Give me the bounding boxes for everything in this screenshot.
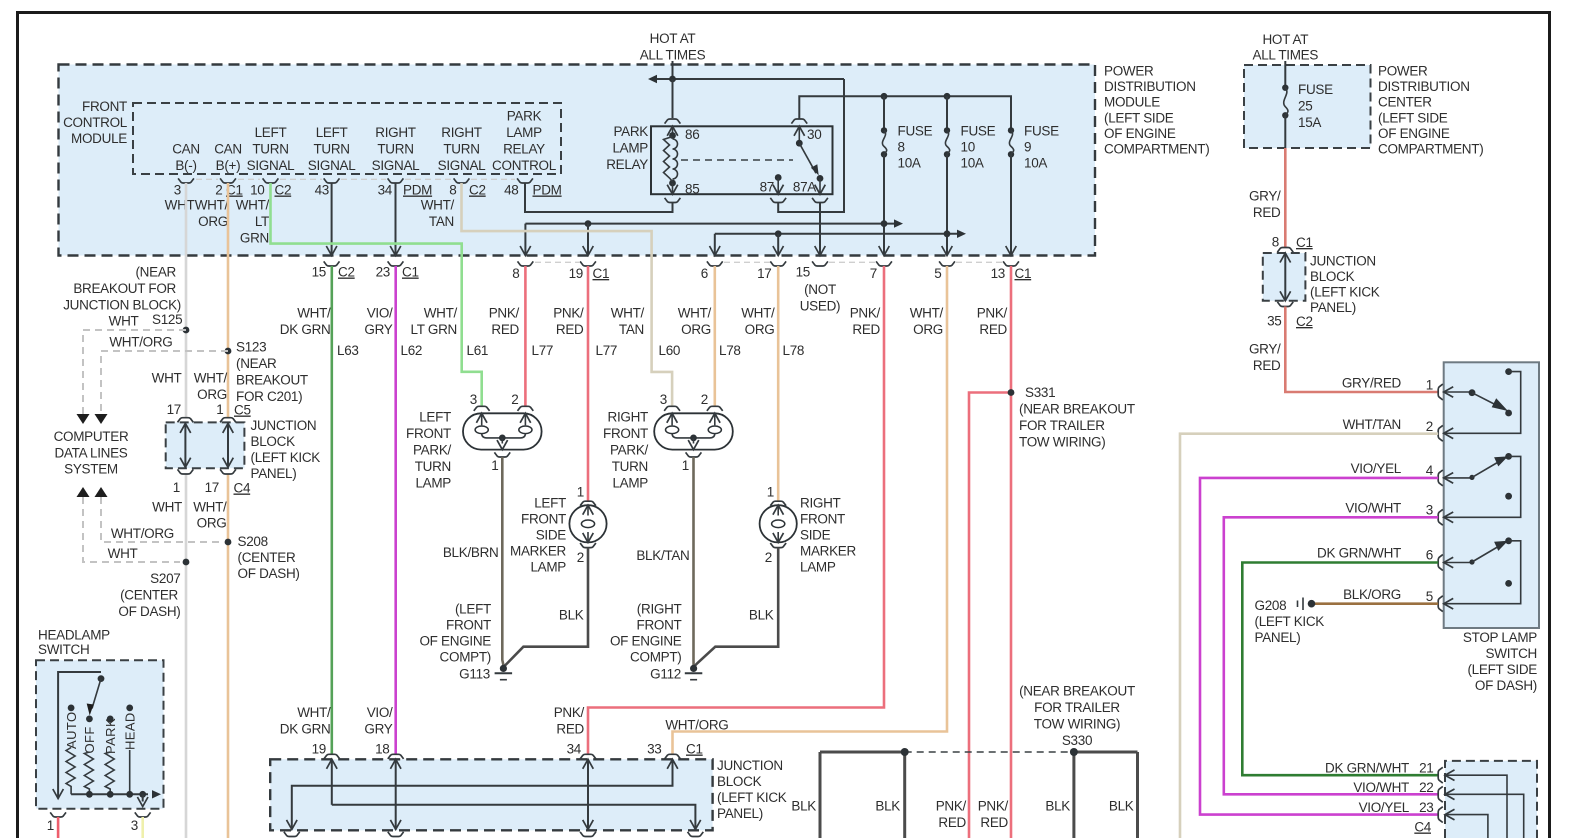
svg-text:WHT/: WHT/: [297, 705, 331, 720]
svg-text:VIO/WHT: VIO/WHT: [1353, 780, 1409, 795]
svg-text:87A: 87A: [793, 180, 816, 195]
junction block C4 pin 21: [1438, 767, 1443, 783]
headlamp switch contact AUTO: [68, 705, 75, 712]
svg-text:WHT: WHT: [152, 371, 182, 386]
svg-text:L63: L63: [337, 343, 359, 358]
relay pin 85 terminal: [669, 180, 676, 187]
svg-text:G113: G113: [459, 667, 490, 682]
svg-text:(NEAR: (NEAR: [135, 265, 176, 280]
svg-text:STOP LAMP: STOP LAMP: [1463, 630, 1537, 645]
svg-text:(NEAR BREAKOUT: (NEAR BREAKOUT: [1019, 684, 1135, 699]
svg-text:PARK: PARK: [613, 124, 648, 139]
svg-text:RIGHT: RIGHT: [375, 125, 416, 140]
headlamp switch pin 1 exit: [50, 812, 66, 817]
svg-text:1: 1: [173, 480, 180, 495]
svg-text:LT GRN: LT GRN: [411, 322, 457, 337]
svg-text:9: 9: [1024, 140, 1031, 155]
wire YEL from headlamp switch pin 3: [141, 817, 144, 838]
svg-text:RED: RED: [556, 322, 584, 337]
svg-text:LAMP: LAMP: [506, 125, 542, 140]
svg-text:6: 6: [1426, 548, 1433, 563]
svg-text:RED: RED: [980, 815, 1008, 830]
svg-text:3: 3: [174, 183, 181, 198]
svg-text:PNK/: PNK/: [553, 306, 584, 321]
svg-text:BLK/BRN: BLK/BRN: [443, 545, 499, 560]
svg-text:(LEFT KICK: (LEFT KICK: [1310, 285, 1380, 300]
svg-text:WHT/: WHT/: [236, 198, 270, 213]
svg-text:(CENTER: (CENTER: [238, 550, 296, 565]
svg-text:15A: 15A: [1298, 115, 1321, 130]
svg-text:RED: RED: [556, 722, 584, 737]
svg-text:C1: C1: [593, 266, 610, 281]
svg-text:MODULE: MODULE: [1104, 95, 1160, 110]
ground G208: [1308, 600, 1316, 608]
svg-text:ALL TIMES: ALL TIMES: [640, 48, 706, 63]
junction block internal wire pin 34: [587, 759, 589, 829]
svg-text:PNK/: PNK/: [936, 799, 967, 814]
svg-text:L77: L77: [532, 343, 554, 358]
wire GRY/RED fuse 25 to junction block: [1284, 148, 1287, 248]
svg-text:23: 23: [1419, 800, 1433, 815]
svg-text:VIO/YEL: VIO/YEL: [1351, 461, 1402, 476]
svg-text:WHT/: WHT/: [910, 306, 944, 321]
svg-text:1: 1: [682, 458, 689, 473]
svg-text:FUSE: FUSE: [1298, 82, 1333, 97]
svg-text:B(+): B(+): [216, 158, 241, 173]
svg-text:ALL TIMES: ALL TIMES: [1253, 48, 1319, 63]
svg-text:WHT/: WHT/: [678, 306, 712, 321]
wire WHT/ORG park feed from pin 17 to right side marker pin 1: [777, 266, 780, 501]
svg-text:BLK: BLK: [749, 608, 774, 623]
svg-text:BLK/TAN: BLK/TAN: [636, 548, 689, 563]
junction block right bottom exit 35 C2: [1277, 302, 1293, 307]
right front side marker lamp: [760, 505, 797, 542]
svg-text:C1: C1: [402, 265, 419, 280]
svg-text:PARK: PARK: [103, 718, 118, 754]
svg-text:WHT/: WHT/: [611, 306, 645, 321]
wire WHT/TAN to stop lamp switch pin 2: [1180, 434, 1438, 838]
wire GRY/RED junction block to stop lamp switch pin 1: [1285, 307, 1438, 393]
dashed line to splice S208: [101, 497, 222, 542]
svg-text:COMPARTMENT): COMPARTMENT): [1378, 142, 1483, 157]
svg-text:G208: G208: [1255, 598, 1287, 613]
svg-text:(LEFT SIDE: (LEFT SIDE: [1104, 110, 1174, 125]
left front side marker lamp: [569, 505, 606, 542]
dashed line to splice S207: [83, 497, 180, 562]
svg-text:BREAKOUT: BREAKOUT: [236, 373, 308, 388]
junction block pin 33 entry: [665, 754, 681, 759]
svg-text:FRONT: FRONT: [82, 99, 127, 114]
svg-text:2: 2: [511, 392, 518, 407]
FCM row1 connector bumps: [178, 178, 194, 183]
fuse 8 output drop to pin 7: [883, 154, 885, 255]
svg-text:BLK: BLK: [1045, 799, 1070, 814]
svg-text:15: 15: [312, 265, 326, 280]
svg-text:ORG: ORG: [197, 387, 227, 402]
wire relay pin 30 feed to fuses: [799, 96, 1011, 130]
splice S330 dashed link: [905, 751, 1074, 753]
junction block right pin 8 C1 entry: [1277, 248, 1293, 253]
svg-text:JUNCTION: JUNCTION: [251, 418, 317, 433]
svg-text:LAMP: LAMP: [415, 476, 451, 491]
svg-text:COMPARTMENT): COMPARTMENT): [1104, 142, 1209, 157]
svg-text:C2: C2: [338, 265, 355, 280]
svg-text:18: 18: [375, 742, 389, 757]
svg-text:(LEFT SIDE: (LEFT SIDE: [1378, 110, 1448, 125]
svg-text:GRY/: GRY/: [1249, 189, 1281, 204]
svg-text:TAN: TAN: [429, 214, 454, 229]
svg-text:LAMP: LAMP: [612, 476, 648, 491]
svg-text:2: 2: [1426, 419, 1433, 434]
svg-text:8: 8: [512, 266, 519, 281]
svg-text:1: 1: [216, 402, 223, 417]
front control module connector inner box: [133, 103, 561, 174]
wire PNK/RED from pin 13 C1 through splice S331: [1010, 266, 1013, 838]
svg-text:2: 2: [765, 550, 772, 565]
svg-text:(NEAR: (NEAR: [236, 356, 277, 371]
junction block bottom connector bumps: [284, 832, 300, 837]
svg-text:WHT/ORG: WHT/ORG: [109, 335, 172, 350]
FCM row2 connector dashed links: [535, 261, 580, 263]
svg-text:FUSE: FUSE: [961, 124, 996, 139]
ground G113: [500, 665, 507, 672]
svg-text:LAMP: LAMP: [530, 560, 566, 575]
svg-text:PNK/: PNK/: [978, 799, 1009, 814]
svg-text:DISTRIBUTION: DISTRIBUTION: [1378, 79, 1470, 94]
wire DK GRN/WHT stop lamp pin 6 to C4 pin 21: [1242, 563, 1438, 776]
svg-text:10A: 10A: [1024, 156, 1047, 171]
svg-text:PNK/: PNK/: [850, 306, 881, 321]
svg-text:34: 34: [567, 742, 582, 757]
svg-text:WHT/ORG: WHT/ORG: [665, 718, 728, 733]
svg-text:WHT/: WHT/: [421, 198, 455, 213]
svg-text:ORG: ORG: [913, 322, 943, 337]
fuse 25 15A: [1282, 85, 1288, 91]
svg-text:FOR TRAILER: FOR TRAILER: [1019, 418, 1105, 433]
svg-text:25: 25: [1298, 99, 1312, 114]
svg-text:1: 1: [767, 485, 774, 500]
svg-text:S125: S125: [152, 312, 182, 327]
svg-text:43: 43: [315, 183, 329, 198]
stop lamp switch section 2 contacts: [1444, 477, 1472, 479]
svg-text:OF DASH): OF DASH): [238, 566, 300, 581]
svg-text:2: 2: [701, 392, 708, 407]
svg-text:C5: C5: [234, 403, 251, 418]
svg-text:AUTO: AUTO: [64, 712, 79, 749]
headlamp switch rotary wiper: [98, 675, 105, 682]
svg-text:(CENTER: (CENTER: [120, 588, 178, 603]
svg-text:TURN: TURN: [377, 142, 413, 157]
wire WHT/DK GRN left turn from pin 15 C2 to junction block pin 19: [330, 266, 333, 754]
svg-text:L78: L78: [719, 343, 741, 358]
svg-text:VIO/WHT: VIO/WHT: [1345, 501, 1401, 516]
left front park/turn lamp: [463, 413, 542, 449]
svg-text:WHT/: WHT/: [741, 306, 775, 321]
wire WHT/TAN right turn signal from pin 8 C2 to right park lamp pin 3: [462, 183, 673, 406]
svg-text:DK GRN/WHT: DK GRN/WHT: [1325, 761, 1409, 776]
svg-text:SYSTEM: SYSTEM: [64, 462, 118, 477]
svg-text:WHT: WHT: [108, 546, 138, 561]
wire BLK left side marker to ground G113: [505, 548, 589, 666]
svg-text:(RIGHT: (RIGHT: [637, 602, 682, 617]
svg-text:FRONT: FRONT: [446, 618, 491, 633]
svg-text:17: 17: [205, 480, 219, 495]
svg-text:VIO/: VIO/: [367, 705, 393, 720]
svg-text:HEADLAMP: HEADLAMP: [38, 628, 110, 643]
svg-text:COMPT): COMPT): [630, 650, 681, 665]
svg-text:RED: RED: [979, 322, 1007, 337]
junction block C5 bottom exits: [178, 469, 194, 474]
power distribution center box (right): [1244, 65, 1371, 148]
svg-text:WHT/TAN: WHT/TAN: [1343, 417, 1401, 432]
svg-text:RELAY: RELAY: [606, 157, 648, 172]
svg-text:L78: L78: [783, 343, 805, 358]
svg-text:WHT/: WHT/: [424, 306, 458, 321]
svg-text:PNK/: PNK/: [977, 306, 1008, 321]
svg-text:GRY/: GRY/: [1249, 342, 1281, 357]
stop lamp switch pin 2: [1438, 425, 1443, 441]
svg-text:OF ENGINE: OF ENGINE: [419, 634, 491, 649]
svg-text:TURN: TURN: [313, 142, 349, 157]
svg-text:BLK: BLK: [791, 799, 816, 814]
svg-text:C1: C1: [1296, 235, 1313, 250]
svg-text:30: 30: [807, 127, 821, 142]
stop lamp switch section 3 contacts: [1444, 562, 1472, 564]
stop lamp switch pin 3: [1438, 509, 1443, 525]
svg-text:SIGNAL: SIGNAL: [372, 158, 421, 173]
wire BLK/BRN left park lamp to ground G113: [502, 457, 503, 665]
svg-text:TURN: TURN: [252, 142, 288, 157]
headlamp switch pin 3 exit: [135, 812, 151, 817]
svg-text:3: 3: [470, 392, 477, 407]
svg-text:RIGHT: RIGHT: [441, 125, 482, 140]
svg-text:ORG: ORG: [681, 322, 711, 337]
junction block internal wire pin 33 to bottom exit: [292, 759, 673, 829]
wire WHT CAN B(-) below junction block C5: [185, 474, 188, 838]
svg-text:PARK/: PARK/: [610, 443, 649, 458]
feed wire into fuse 25: [1284, 61, 1286, 88]
svg-text:35: 35: [1267, 314, 1281, 329]
svg-text:17: 17: [167, 402, 181, 417]
svg-text:OF DASH): OF DASH): [118, 604, 180, 619]
stop lamp switch box: [1444, 362, 1539, 628]
headlamp switch contact OFF: [86, 716, 93, 723]
svg-text:MARKER: MARKER: [510, 544, 567, 559]
wire hot feed loop to relay pin 87: [778, 79, 844, 212]
svg-text:COMPT): COMPT): [440, 650, 491, 665]
wire WHT/ORG from pin 5 to junction block pin 33: [673, 266, 948, 754]
svg-text:WHT/: WHT/: [194, 371, 228, 386]
svg-text:DATA LINES: DATA LINES: [54, 446, 127, 461]
svg-text:PANEL): PANEL): [1255, 630, 1301, 645]
svg-text:OF ENGINE: OF ENGINE: [610, 634, 682, 649]
svg-text:OF ENGINE: OF ENGINE: [1378, 126, 1450, 141]
svg-text:PDM: PDM: [533, 183, 562, 198]
wire VIO/GRY right turn from pin 23 C1 to junction block pin 18: [394, 266, 397, 754]
wire BLK/ORG stop lamp switch to ground G208: [1315, 602, 1438, 605]
wire hot feed down to relay pin 86: [672, 79, 674, 118]
fuse 8 10A: [883, 96, 885, 130]
headlamp switch contact HEAD: [126, 705, 133, 712]
svg-text:6: 6: [701, 266, 708, 281]
svg-text:ORG: ORG: [198, 214, 228, 229]
park lamp relay U1 box: [651, 126, 833, 194]
svg-text:FRONT: FRONT: [521, 512, 566, 527]
svg-text:17: 17: [757, 266, 771, 281]
svg-text:1: 1: [491, 458, 498, 473]
svg-text:(LEFT SIDE: (LEFT SIDE: [1467, 662, 1537, 677]
relay switch blade 30-87A: [799, 143, 816, 173]
svg-text:FRONT: FRONT: [637, 618, 682, 633]
svg-text:BLOCK: BLOCK: [717, 774, 762, 789]
svg-text:LEFT: LEFT: [255, 125, 287, 140]
svg-text:OF DASH): OF DASH): [1475, 678, 1537, 693]
svg-text:FUSE: FUSE: [898, 124, 933, 139]
svg-text:LAMP: LAMP: [800, 560, 836, 575]
svg-text:VIO/: VIO/: [367, 306, 393, 321]
junction block C4 box bottom right: [1445, 761, 1537, 838]
svg-text:21: 21: [1419, 761, 1433, 776]
svg-text:3: 3: [660, 392, 667, 407]
svg-text:GRN: GRN: [240, 231, 269, 246]
svg-text:S208: S208: [238, 534, 268, 549]
svg-text:WHT/: WHT/: [193, 500, 227, 515]
svg-text:5: 5: [1426, 589, 1433, 604]
svg-text:RED: RED: [938, 815, 966, 830]
svg-text:C2: C2: [469, 183, 486, 198]
junction block C4 pin 22: [1438, 786, 1443, 802]
svg-text:(LEFT KICK: (LEFT KICK: [251, 450, 321, 465]
svg-text:B(-): B(-): [175, 158, 196, 173]
svg-text:MARKER: MARKER: [800, 544, 857, 559]
svg-text:BREAKOUT FOR: BREAKOUT FOR: [73, 281, 176, 296]
junction block pin 34 entry: [580, 754, 596, 759]
svg-text:RED: RED: [491, 322, 519, 337]
svg-text:RIGHT: RIGHT: [608, 410, 649, 425]
svg-text:PARK: PARK: [507, 109, 542, 124]
svg-text:2: 2: [577, 550, 584, 565]
battery feed wire to park lamp relay: [672, 61, 674, 79]
svg-text:PARK/: PARK/: [413, 443, 452, 458]
svg-text:15: 15: [796, 265, 810, 280]
svg-text:SWITCH: SWITCH: [38, 642, 89, 657]
svg-text:JUNCTION: JUNCTION: [717, 758, 783, 773]
svg-text:WHT/: WHT/: [297, 306, 331, 321]
splice S208: [225, 539, 232, 546]
svg-text:(LEFT KICK: (LEFT KICK: [1255, 614, 1325, 629]
svg-text:L62: L62: [401, 343, 423, 358]
svg-text:MODULE: MODULE: [71, 131, 127, 146]
junction block C5 box left: [166, 422, 245, 468]
svg-text:8: 8: [449, 183, 456, 198]
wire WHT/LT GRN left turn signal from pin 10 to left park lamp pin 3: [271, 183, 482, 406]
svg-text:ORG: ORG: [745, 322, 775, 337]
svg-text:USED): USED): [800, 299, 841, 314]
svg-text:S331: S331: [1025, 385, 1055, 400]
pin 48 park lamp relay control wire to relay pin 85: [525, 183, 673, 212]
junction block C4 pin 23: [1438, 807, 1443, 823]
stop lamp switch section 1 contacts: [1444, 391, 1472, 393]
wire BLK right side marker to ground G112: [695, 548, 779, 666]
svg-text:DISTRIBUTION: DISTRIBUTION: [1104, 79, 1196, 94]
junction block (left kick panel) bottom center box: [270, 759, 712, 830]
svg-text:SIGNAL: SIGNAL: [308, 158, 357, 173]
svg-text:(NEAR BREAKOUT: (NEAR BREAKOUT: [1019, 402, 1135, 417]
svg-text:22: 22: [1419, 780, 1433, 795]
fuse 9 10A: [1008, 127, 1014, 133]
svg-text:13: 13: [991, 266, 1005, 281]
svg-text:PANEL): PANEL): [717, 806, 763, 821]
svg-text:1: 1: [47, 818, 54, 833]
svg-text:S123: S123: [236, 340, 266, 355]
svg-text:TURN: TURN: [415, 459, 451, 474]
svg-text:23: 23: [376, 265, 390, 280]
stop lamp switch pin 1: [1438, 384, 1443, 400]
svg-text:FRONT: FRONT: [406, 426, 451, 441]
svg-text:HOT AT: HOT AT: [650, 31, 696, 46]
svg-text:10: 10: [961, 140, 975, 155]
svg-text:VIO/YEL: VIO/YEL: [1359, 800, 1410, 815]
stop lamp switch pin 6: [1438, 555, 1443, 571]
dashed line from S123 to computer data lines: [101, 351, 228, 414]
ground wires BLK at splice S330: [819, 752, 822, 838]
svg-text:10A: 10A: [961, 156, 984, 171]
svg-text:BLK: BLK: [559, 608, 584, 623]
ground G112: [690, 665, 697, 672]
svg-text:48: 48: [504, 183, 518, 198]
svg-text:19: 19: [569, 266, 583, 281]
svg-text:RED: RED: [1253, 358, 1281, 373]
svg-text:L61: L61: [467, 343, 489, 358]
svg-text:OFF: OFF: [82, 726, 97, 753]
svg-text:CONTROL: CONTROL: [492, 158, 557, 173]
svg-text:PANEL): PANEL): [251, 466, 297, 481]
svg-text:ORG: ORG: [197, 516, 227, 531]
svg-text:COMPUTER: COMPUTER: [54, 429, 129, 444]
splice S125 on CAN B(-): [183, 327, 190, 334]
svg-text:(LEFT KICK: (LEFT KICK: [717, 790, 787, 805]
relay pin 87A terminal: [817, 175, 824, 182]
svg-text:PNK/: PNK/: [489, 306, 520, 321]
fuse 10 10A: [946, 96, 948, 130]
svg-text:LEFT: LEFT: [316, 125, 348, 140]
svg-text:1: 1: [1426, 378, 1433, 393]
relay coil-contact dashed link: [681, 159, 793, 161]
svg-text:85: 85: [685, 182, 699, 197]
svg-text:7: 7: [870, 266, 877, 281]
svg-text:S330: S330: [1062, 733, 1092, 748]
svg-text:FRONT: FRONT: [800, 512, 845, 527]
pin 34 right turn signal internal drop: [395, 183, 397, 256]
computer data lines return arrows: [77, 487, 90, 497]
svg-text:WHT: WHT: [109, 314, 139, 329]
svg-text:RED: RED: [1253, 205, 1281, 220]
wire VIO/YEL stop lamp pin 4 to C4 pin 23: [1200, 478, 1438, 815]
svg-text:87: 87: [760, 180, 774, 195]
svg-text:CAN: CAN: [214, 142, 242, 157]
FCM row1 connector dashed links: [196, 178, 218, 180]
headlamp switch output bus: [71, 793, 148, 795]
headlamp switch contact PARK: [107, 716, 114, 723]
svg-text:TOW WIRING): TOW WIRING): [1019, 435, 1105, 450]
wire WHT/ORG CAN B(+) from pin 2: [227, 183, 230, 418]
svg-text:DK GRN/WHT: DK GRN/WHT: [1317, 546, 1401, 561]
svg-text:PNK/: PNK/: [554, 705, 585, 720]
svg-text:SWITCH: SWITCH: [1486, 646, 1537, 661]
svg-text:SIGNAL: SIGNAL: [438, 158, 487, 173]
svg-text:LAMP: LAMP: [612, 141, 648, 156]
fuse 25 output inside PDC: [1284, 115, 1286, 148]
